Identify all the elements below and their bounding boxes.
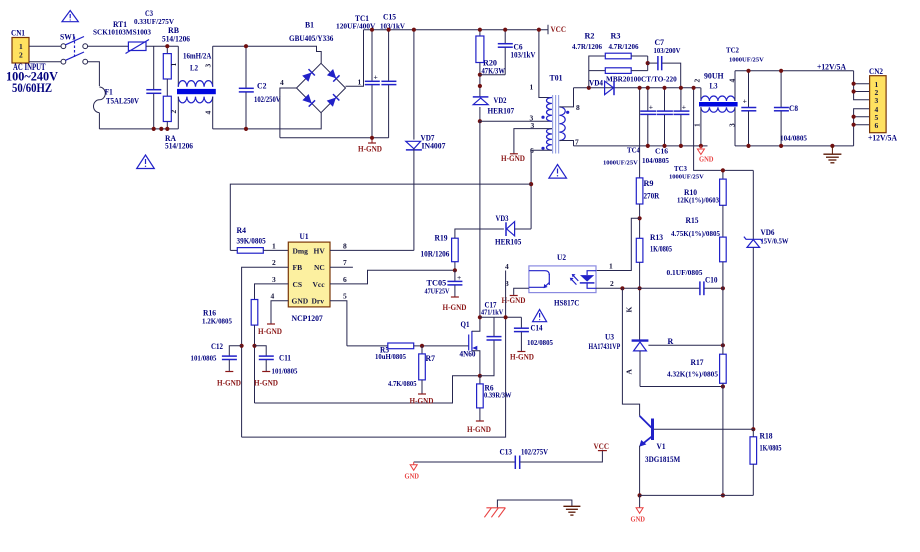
svg-text:+: + bbox=[682, 103, 686, 112]
capacitor C2 bbox=[239, 46, 281, 129]
node C8 bottom bbox=[779, 144, 783, 148]
svg-text:4: 4 bbox=[505, 262, 509, 271]
svg-text:2: 2 bbox=[169, 110, 178, 114]
diode VD7 bbox=[406, 30, 446, 251]
node TC4 bottom bbox=[646, 144, 650, 148]
svg-text:H-GND: H-GND bbox=[258, 327, 282, 336]
node ref/R17 top bbox=[721, 343, 725, 347]
svg-text:C11: C11 bbox=[279, 354, 291, 363]
svg-text:GND: GND bbox=[292, 297, 309, 306]
warning triangle (near C14) bbox=[533, 310, 547, 322]
svg-text:GND: GND bbox=[405, 472, 420, 481]
svg-text:C8: C8 bbox=[789, 104, 798, 113]
svg-text:U2: U2 bbox=[557, 253, 566, 262]
capacitor C10 bbox=[667, 269, 723, 295]
svg-text:C3: C3 bbox=[145, 9, 153, 18]
svg-text:C14: C14 bbox=[531, 324, 543, 333]
svg-text:HER107: HER107 bbox=[488, 107, 515, 116]
zener diode VD6 bbox=[744, 170, 789, 429]
capacitor C14 bbox=[514, 317, 554, 351]
node FB/C12 bbox=[240, 344, 244, 348]
diode VD3 bbox=[495, 214, 531, 247]
svg-text:C7: C7 bbox=[655, 38, 665, 47]
wire T01 aux top to H-GND bbox=[514, 129, 552, 154]
svg-text:1000UF/25V: 1000UF/25V bbox=[669, 174, 704, 181]
svg-text:1.2K/0805: 1.2K/0805 bbox=[202, 318, 232, 326]
wire chassis to earth ground bbox=[497, 500, 572, 508]
svg-text:R16: R16 bbox=[203, 309, 216, 318]
wire 0V rail right bbox=[735, 145, 854, 147]
svg-text:T5AL250V: T5AL250V bbox=[106, 97, 139, 106]
svg-text:7: 7 bbox=[575, 138, 579, 147]
node pin2 bbox=[852, 89, 856, 93]
node anode/R17 bottom bbox=[721, 384, 725, 388]
svg-text:101/0805: 101/0805 bbox=[191, 355, 217, 363]
resistor R15 bbox=[671, 216, 726, 345]
svg-text:SW1: SW1 bbox=[60, 33, 76, 42]
svg-text:TC4: TC4 bbox=[627, 147, 640, 155]
wire bottom AC rail (left) bbox=[99, 128, 178, 130]
common-mode choke L3 bbox=[693, 71, 738, 146]
wire pin5 Drv to gate bbox=[330, 301, 347, 346]
wire T01 pin3 to Q1 drain bbox=[479, 121, 481, 317]
svg-text:1000UF/25V: 1000UF/25V bbox=[729, 57, 764, 64]
H-GND symbol (R6) bbox=[467, 421, 491, 434]
svg-text:B1: B1 bbox=[305, 21, 314, 30]
svg-text:H-GND: H-GND bbox=[443, 303, 467, 312]
svg-text:GBU405/Y336: GBU405/Y336 bbox=[289, 34, 333, 43]
capacitor C3 bbox=[134, 9, 174, 129]
svg-text:CN2: CN2 bbox=[869, 67, 883, 76]
svg-text:NCP1207: NCP1207 bbox=[292, 314, 323, 323]
svg-text:HA17431VP: HA17431VP bbox=[589, 342, 621, 351]
svg-text:+12V/5A: +12V/5A bbox=[868, 134, 897, 143]
svg-text:12K(1%)/0603: 12K(1%)/0603 bbox=[677, 197, 719, 205]
svg-text:L2: L2 bbox=[190, 64, 198, 73]
H-GND symbol (C14) bbox=[510, 352, 534, 362]
resistor R9 bbox=[636, 178, 659, 238]
wire +12V rail bbox=[735, 70, 854, 72]
node pin6 bbox=[852, 123, 856, 127]
warning triangle (below RA) bbox=[137, 155, 155, 169]
svg-text:V1: V1 bbox=[657, 442, 666, 451]
svg-text:H-GND: H-GND bbox=[410, 397, 434, 406]
svg-text:4.32K(1%)/0805: 4.32K(1%)/0805 bbox=[667, 371, 719, 379]
svg-text:102/0805: 102/0805 bbox=[527, 339, 553, 347]
svg-text:TC2: TC2 bbox=[726, 47, 739, 55]
node FB loop tap bbox=[504, 315, 508, 319]
svg-text:U3: U3 bbox=[605, 333, 614, 342]
svg-text:0.33UF/275V: 0.33UF/275V bbox=[134, 18, 174, 26]
svg-text:A: A bbox=[625, 369, 634, 375]
svg-text:5: 5 bbox=[343, 292, 347, 301]
warning triangle (top left) bbox=[62, 11, 78, 22]
svg-text:15V/0.5W: 15V/0.5W bbox=[761, 238, 789, 246]
wire RT1 to L2 bbox=[146, 45, 178, 47]
H-GND rail under bridge bbox=[280, 137, 389, 139]
svg-text:1: 1 bbox=[169, 63, 178, 67]
node snubber tap bbox=[587, 86, 591, 90]
svg-text:CS: CS bbox=[293, 280, 303, 289]
H-GND symbol (R7) bbox=[410, 394, 434, 406]
svg-text:GND: GND bbox=[631, 515, 646, 524]
node below R20 bbox=[478, 84, 482, 88]
svg-text:+: + bbox=[649, 103, 653, 112]
wire HV top rail bbox=[364, 29, 549, 31]
node TC2 bottom bbox=[746, 144, 750, 148]
node TC1 top bbox=[370, 28, 374, 32]
svg-text:H-GND: H-GND bbox=[510, 353, 534, 362]
svg-text:4.7K/0805: 4.7K/0805 bbox=[388, 380, 417, 388]
node RA bottom / C3 bottom bbox=[152, 127, 156, 131]
node C16 bottom bbox=[662, 144, 666, 148]
svg-text:104/0805: 104/0805 bbox=[780, 134, 808, 142]
svg-text:3: 3 bbox=[728, 123, 737, 127]
node C6 top bbox=[503, 28, 507, 32]
node V1 base / R18 top bbox=[751, 427, 755, 431]
svg-text:TC1: TC1 bbox=[355, 14, 369, 23]
svg-text:3DG1815M: 3DG1815M bbox=[645, 455, 681, 464]
svg-text:102/275V: 102/275V bbox=[521, 448, 548, 457]
H-GND symbol (bridge) bbox=[358, 138, 382, 154]
wire bridge minus to H-GND rail bbox=[280, 88, 297, 138]
svg-text:4.7R/1206: 4.7R/1206 bbox=[572, 43, 603, 51]
resistor RA bbox=[163, 96, 193, 150]
svg-text:6: 6 bbox=[343, 275, 347, 284]
svg-text:H-GND: H-GND bbox=[501, 154, 525, 163]
node C2 bottom bbox=[244, 127, 248, 131]
IC U1 NCP1207 bbox=[288, 232, 330, 323]
svg-text:L3: L3 bbox=[710, 82, 718, 91]
svg-text:1: 1 bbox=[609, 262, 613, 271]
svg-text:1K/0805: 1K/0805 bbox=[760, 444, 782, 453]
svg-text:514/1206: 514/1206 bbox=[162, 35, 190, 44]
capacitor TC4 bbox=[603, 88, 656, 167]
H-GND symbol (aux winding) bbox=[501, 154, 525, 163]
svg-text:3: 3 bbox=[272, 275, 276, 284]
wire pin3 CS left bbox=[255, 284, 289, 300]
node TC4 top bbox=[646, 86, 650, 90]
resistor R6 bbox=[477, 376, 512, 421]
svg-text:R4: R4 bbox=[237, 226, 247, 235]
diode VD4 (MBR20100CT) bbox=[589, 75, 677, 95]
wire drain row to C14 bbox=[480, 316, 522, 318]
svg-text:2: 2 bbox=[610, 279, 614, 288]
svg-text:47K/3W: 47K/3W bbox=[482, 67, 505, 76]
earth ground (output) bbox=[823, 144, 841, 163]
wire T01 pin8 to secondary rail bbox=[559, 88, 573, 107]
svg-text:120UF/400V: 120UF/400V bbox=[336, 23, 375, 31]
VCC label (C13) bbox=[594, 442, 610, 451]
capacitor C8 bbox=[774, 71, 808, 146]
node Q1 source bbox=[478, 374, 482, 378]
svg-text:10uH/0805: 10uH/0805 bbox=[375, 353, 406, 361]
resistor R2 bbox=[572, 32, 648, 88]
wire to opto pin1 bbox=[596, 218, 640, 270]
node C8 top bbox=[779, 69, 783, 73]
svg-text:C12: C12 bbox=[211, 342, 223, 351]
transformer T01 bbox=[530, 74, 581, 155]
switch SW1 bbox=[60, 33, 88, 65]
svg-text:HV: HV bbox=[314, 246, 326, 255]
node T01 pin1 top bbox=[537, 28, 541, 32]
connector CN1 bbox=[11, 29, 29, 64]
capacitor C17 bbox=[480, 301, 503, 376]
resistor R10 bbox=[677, 179, 726, 237]
wire pin2 FB left bbox=[242, 267, 289, 437]
wire CN2 pin2 stub bbox=[854, 91, 870, 93]
resistor RB bbox=[162, 26, 190, 96]
wire pin6 Vcc to R19 bbox=[330, 270, 455, 284]
svg-text:R17: R17 bbox=[691, 358, 704, 367]
svg-text:F1: F1 bbox=[105, 88, 113, 97]
svg-text:C13: C13 bbox=[500, 448, 513, 457]
svg-text:R7: R7 bbox=[426, 354, 436, 363]
svg-text:H-GND: H-GND bbox=[467, 425, 491, 434]
wire bridge plus riser bbox=[346, 30, 364, 87]
svg-text:10R/1206: 10R/1206 bbox=[421, 250, 450, 259]
capacitor C13 bbox=[414, 448, 603, 470]
svg-text:SCK10103MS1003: SCK10103MS1003 bbox=[93, 29, 152, 37]
svg-text:47UF25V: 47UF25V bbox=[425, 287, 450, 295]
bridge rectifier B1 bbox=[280, 21, 362, 113]
transistor V1 bbox=[639, 416, 753, 496]
wire L2 to C2/bridge bottom bbox=[213, 113, 322, 129]
svg-text:+: + bbox=[743, 97, 747, 106]
resistor R13 bbox=[636, 233, 672, 340]
wire SW1 pole2 to F1 bbox=[88, 62, 100, 86]
svg-text:4: 4 bbox=[280, 78, 284, 87]
resistor R18 bbox=[750, 429, 782, 495]
svg-text:VCC: VCC bbox=[594, 442, 610, 451]
svg-text:NC: NC bbox=[314, 263, 325, 272]
node pin5 bbox=[852, 115, 856, 119]
svg-text:R: R bbox=[668, 337, 674, 346]
wire U3 anode line bbox=[640, 386, 723, 388]
node CS/C11 bbox=[252, 344, 256, 348]
wire opto pin2 row bbox=[596, 287, 699, 289]
svg-text:103/1kV: 103/1kV bbox=[511, 50, 536, 59]
node divider top bbox=[721, 168, 725, 172]
svg-text:4.7R/1206: 4.7R/1206 bbox=[609, 43, 640, 51]
inductor R5 (10uH/0805) bbox=[347, 343, 469, 361]
svg-text:VCC: VCC bbox=[551, 25, 567, 34]
node RB top bbox=[165, 44, 169, 48]
node R13 bottom / pin2 wire bbox=[638, 286, 642, 290]
node C2 top bbox=[244, 44, 248, 48]
capacitor C15 bbox=[380, 13, 405, 138]
H-GND symbol (opto pin3) bbox=[502, 296, 526, 306]
resistor R4 bbox=[230, 226, 288, 253]
svg-text:H-GND: H-GND bbox=[217, 379, 241, 388]
node TC3 top bbox=[679, 86, 683, 90]
svg-text:3: 3 bbox=[875, 96, 879, 105]
node R9 wire top bbox=[638, 86, 642, 90]
svg-text:HER105: HER105 bbox=[495, 238, 521, 247]
wire T01 aux bottom (pin6) down bbox=[531, 150, 552, 229]
wire R9 column from +12 rail bbox=[639, 88, 641, 178]
svg-text:MBR20100CT/TO-220: MBR20100CT/TO-220 bbox=[606, 75, 677, 83]
svg-text:90UH: 90UH bbox=[704, 72, 724, 81]
wire V1 collector from opto pin2 bbox=[622, 288, 639, 416]
wire F1 to bottom AC rail bbox=[98, 113, 100, 129]
wire U3 ref line bbox=[648, 344, 723, 346]
svg-text:0.1UF/0805: 0.1UF/0805 bbox=[667, 269, 704, 277]
resistor R3 bbox=[589, 32, 648, 74]
svg-text:H-GND: H-GND bbox=[358, 145, 382, 154]
node V1 emitter bbox=[638, 493, 642, 497]
svg-text:102/250V: 102/250V bbox=[254, 95, 281, 104]
svg-text:1: 1 bbox=[358, 78, 362, 87]
node R20/C6 bottom bbox=[478, 73, 482, 77]
wire T01 pin7 to 0V rail bbox=[559, 141, 573, 146]
svg-text:0.39R/3W: 0.39R/3W bbox=[484, 392, 512, 400]
node VD2/T01 pin3 bbox=[478, 119, 482, 123]
wire to CN2 lower pins bbox=[854, 109, 870, 146]
capacitor TC1 bbox=[336, 14, 380, 138]
capacitor C11 bbox=[255, 346, 298, 376]
svg-text:R15: R15 bbox=[686, 216, 699, 225]
wire pin7 NC stub bbox=[330, 266, 353, 268]
svg-text:R3: R3 bbox=[611, 32, 621, 41]
resistor R17 bbox=[667, 345, 726, 495]
wire secondary top rail bbox=[574, 87, 701, 89]
svg-text:+: + bbox=[457, 273, 461, 282]
wire CS loop bottom bbox=[255, 376, 480, 403]
svg-text:50/60HZ: 50/60HZ bbox=[12, 81, 52, 95]
chassis ground (red hatched) bbox=[484, 508, 505, 518]
svg-text:4: 4 bbox=[271, 292, 275, 301]
svg-text:4: 4 bbox=[204, 111, 213, 115]
earth ground (center) bbox=[563, 506, 580, 515]
capacitor TC05 bbox=[425, 270, 463, 297]
ground GND (V1 emitter) bbox=[631, 495, 646, 523]
node R20 top bbox=[478, 28, 482, 32]
svg-text:+12V/5A: +12V/5A bbox=[817, 63, 846, 72]
node gate/R7 bbox=[420, 344, 424, 348]
capacitor TC2 bbox=[726, 47, 764, 146]
resistor R20 bbox=[476, 30, 505, 98]
wire T01 pin1 to top rail bbox=[539, 30, 552, 98]
svg-text:Drv: Drv bbox=[312, 297, 325, 306]
svg-text:7: 7 bbox=[343, 258, 347, 267]
svg-text:+: + bbox=[374, 73, 378, 82]
optocoupler U2 bbox=[529, 253, 596, 308]
warning triangle (below T01) bbox=[549, 165, 567, 179]
svg-text:HS817C: HS817C bbox=[554, 299, 580, 308]
svg-text:FB: FB bbox=[293, 263, 303, 272]
svg-text:8: 8 bbox=[343, 241, 347, 250]
wire CN1 pin2 to SW1 bbox=[29, 61, 61, 63]
svg-text:101/0805: 101/0805 bbox=[272, 368, 298, 376]
svg-text:VD4: VD4 bbox=[589, 79, 603, 88]
wire divider column (R10/R15/R17) bbox=[722, 170, 724, 179]
wire Dmg sense rail bbox=[230, 184, 531, 250]
node Q1 drain bbox=[478, 315, 482, 319]
wire CN1 pin1 to SW1 bbox=[29, 45, 61, 47]
svg-text:VD2: VD2 bbox=[494, 96, 507, 105]
svg-text:R9: R9 bbox=[644, 179, 654, 188]
svg-text:270R: 270R bbox=[644, 192, 660, 201]
node C10 right bbox=[721, 286, 725, 290]
node TC1 bottom bbox=[370, 136, 374, 140]
svg-text:C15: C15 bbox=[383, 13, 396, 22]
svg-text:103/1kV: 103/1kV bbox=[380, 23, 405, 31]
svg-text:Dmg: Dmg bbox=[293, 246, 309, 255]
connector CN2 bbox=[869, 67, 886, 133]
svg-text:Vcc: Vcc bbox=[313, 280, 326, 289]
wire pin4 GND to H-GND bbox=[271, 301, 288, 324]
capacitor C12 bbox=[191, 342, 242, 372]
wire L2 to C2/bridge top bbox=[213, 46, 322, 63]
wire CN2 pin1 stub bbox=[854, 83, 870, 85]
svg-text:TC05: TC05 bbox=[427, 279, 447, 288]
H-GND symbol (TC05) bbox=[443, 297, 467, 312]
svg-text:CN1: CN1 bbox=[11, 29, 25, 38]
H-GND symbol (C11) bbox=[254, 372, 278, 388]
MOSFET Q1 bbox=[460, 317, 480, 376]
svg-text:VD6: VD6 bbox=[761, 228, 775, 237]
node pin2/V1 branch bbox=[620, 286, 624, 290]
svg-text:VD3: VD3 bbox=[496, 214, 509, 223]
svg-text:IN4007: IN4007 bbox=[422, 142, 446, 151]
node TC3 bottom bbox=[679, 144, 683, 148]
ground GND (secondary) bbox=[697, 146, 714, 164]
shunt regulator U3 HA17431VP bbox=[589, 307, 649, 387]
svg-text:R13: R13 bbox=[650, 233, 663, 242]
svg-text:2: 2 bbox=[272, 258, 276, 267]
svg-text:1: 1 bbox=[530, 83, 534, 92]
svg-text:H-GND: H-GND bbox=[254, 379, 278, 388]
svg-text:U1: U1 bbox=[300, 232, 309, 241]
node R9/R13 junction bbox=[638, 216, 642, 220]
wire +12V feed to divider rail bbox=[694, 88, 754, 171]
node C15 top bbox=[387, 28, 391, 32]
svg-text:16mH/2A: 16mH/2A bbox=[183, 52, 211, 61]
svg-text:39K/0805: 39K/0805 bbox=[237, 236, 266, 245]
wire to CN2 upper pins bbox=[854, 71, 870, 100]
capacitor C16 bbox=[642, 88, 673, 165]
svg-text:3: 3 bbox=[204, 64, 213, 68]
node Vcc/R19/TC05 bbox=[453, 268, 457, 272]
VCC label (top rail) bbox=[548, 25, 566, 34]
svg-text:1: 1 bbox=[693, 123, 702, 127]
capacitor C7 bbox=[648, 38, 681, 88]
node VD7 top bbox=[412, 28, 416, 32]
svg-text:1: 1 bbox=[272, 241, 276, 250]
node aux pin6 / Dmg rail bbox=[529, 182, 533, 186]
wire VD2 to T01 pin3 bbox=[480, 120, 552, 122]
svg-text:4: 4 bbox=[728, 79, 737, 83]
resistor R16 bbox=[202, 300, 258, 404]
ground GND (C13) bbox=[405, 462, 420, 481]
resistor R7 bbox=[388, 346, 435, 394]
wire secondary 0V rail bbox=[574, 145, 708, 147]
svg-text:T01: T01 bbox=[550, 74, 563, 83]
svg-text:471/1kV: 471/1kV bbox=[481, 309, 503, 317]
H-GND symbol (C12) bbox=[217, 372, 241, 388]
wire emitter bottom rail bbox=[640, 494, 754, 496]
svg-text:R2: R2 bbox=[585, 32, 595, 41]
capacitor TC3 bbox=[669, 88, 704, 181]
node pin1 bbox=[852, 82, 856, 86]
svg-text:514/1206: 514/1206 bbox=[165, 142, 193, 151]
wire pin8 HV to VD7 bbox=[330, 249, 414, 251]
svg-text:C16: C16 bbox=[655, 148, 669, 156]
capacitor C6 bbox=[480, 30, 536, 75]
svg-text:4.75K(1%)/0805: 4.75K(1%)/0805 bbox=[671, 230, 720, 238]
svg-text:Q1: Q1 bbox=[461, 320, 470, 329]
